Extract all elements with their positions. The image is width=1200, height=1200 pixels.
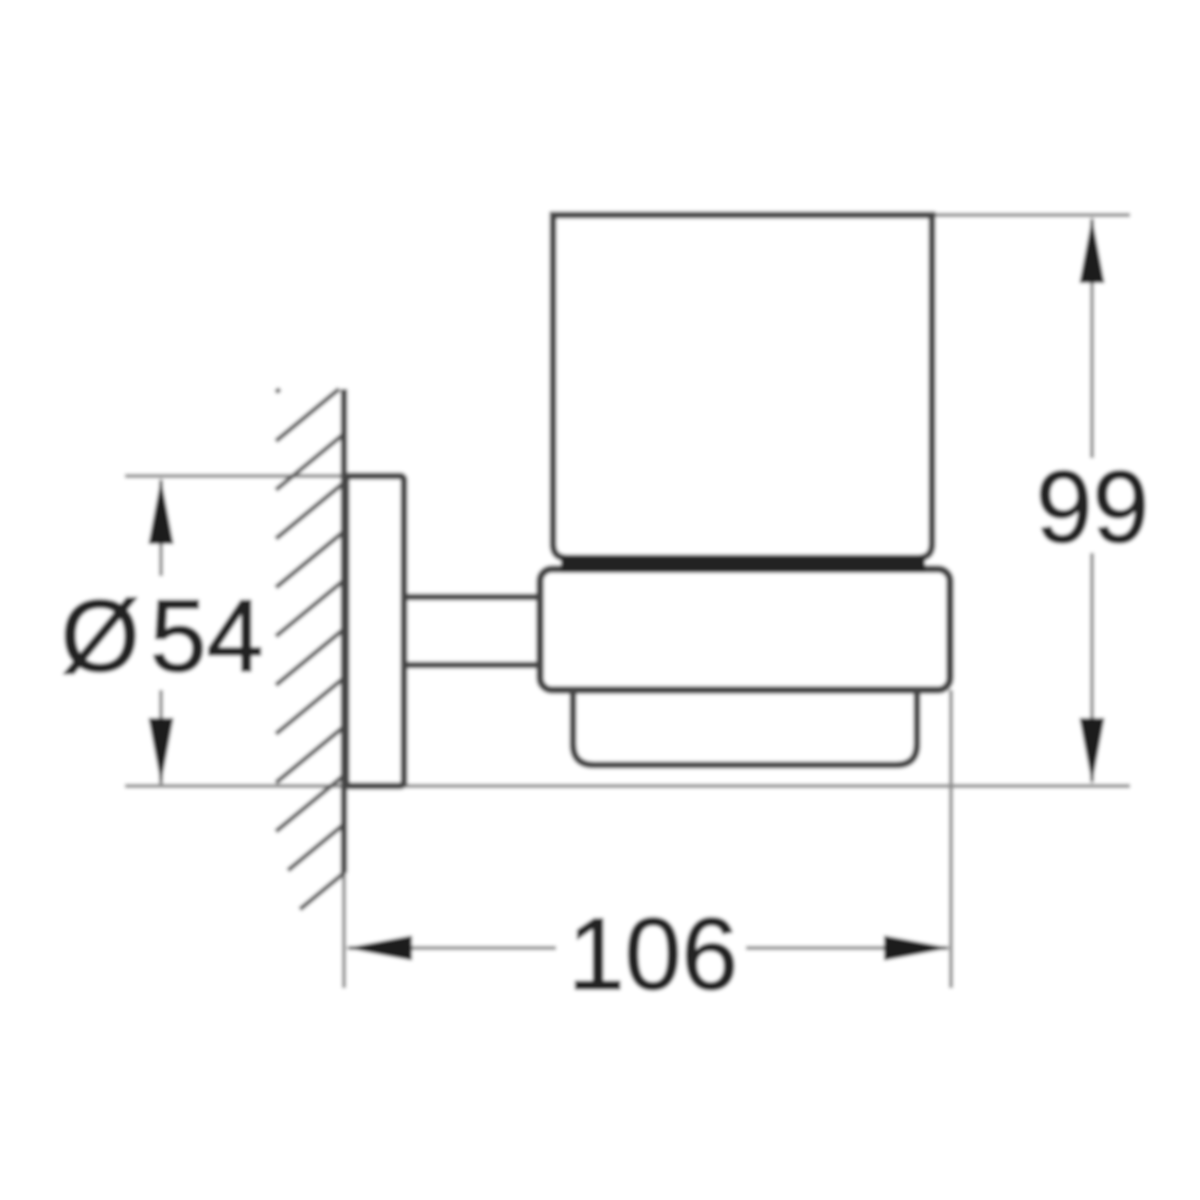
svg-text:106: 106 bbox=[568, 897, 738, 1011]
svg-text:99: 99 bbox=[1036, 450, 1149, 564]
svg-text:Ø54: Ø54 bbox=[61, 579, 264, 693]
